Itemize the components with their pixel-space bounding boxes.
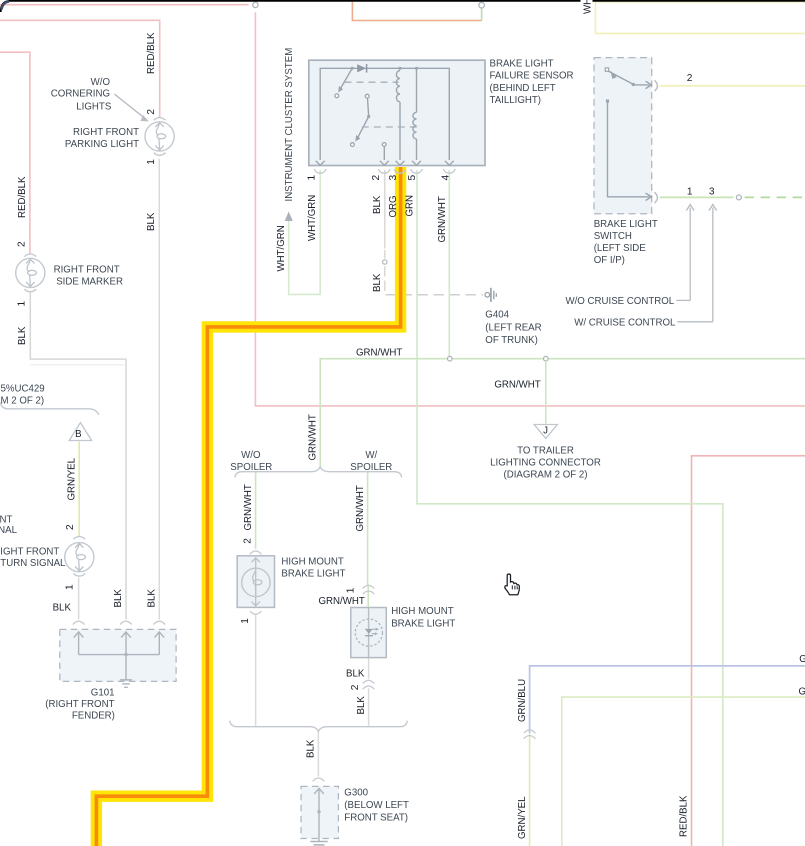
label B in triangle (75, 429, 81, 440)
label TO TRAILER LIGHTING CONNECTOR (490, 445, 601, 480)
pin 1 left high mount (240, 618, 251, 624)
svg-text:GRN/WHT: GRN/WHT (355, 485, 366, 531)
pin 5 cluster (407, 175, 418, 181)
svg-text:IGHT FRONT: IGHT FRONT (0, 546, 59, 557)
label J in triangle (543, 425, 548, 436)
wire BLK below left high mount brake light (255, 614, 257, 726)
svg-text:BLK: BLK (113, 589, 124, 608)
svg-text:NAL: NAL (0, 525, 18, 536)
svg-text:GRN/WHT: GRN/WHT (319, 596, 365, 607)
connector triangle B (69, 423, 91, 441)
pin 1 brake switch (687, 187, 693, 198)
label RIGHT FRONT TURN SIGNAL (edge-cut) (0, 546, 66, 569)
svg-text:GRN/YEL: GRN/YEL (517, 796, 528, 839)
svg-text:TAILLIGHT): TAILLIGHT) (490, 95, 542, 106)
label GRN/WHT (w/ spoiler, vertical) (355, 485, 366, 531)
svg-text:GRN/BLU: GRN/BLU (517, 679, 528, 722)
svg-text:SPOILER: SPOILER (350, 462, 392, 473)
svg-text:FAILURE SENSOR: FAILURE SENSOR (490, 71, 574, 82)
svg-text:W/O: W/O (91, 77, 111, 88)
cluster pin exit arrows (316, 161, 454, 165)
wire GRN/WHT w/ spoiler branch (367, 472, 370, 608)
node: junction circle GRN/WHT at pin4 (448, 356, 453, 361)
connector dome above G300 (313, 778, 325, 781)
brace joining BLK wires above G300 (230, 721, 407, 732)
pin 4 cluster (440, 175, 451, 181)
svg-text:GRN/WHT: GRN/WHT (307, 414, 318, 460)
svg-text:2: 2 (687, 73, 693, 84)
svg-text:2: 2 (350, 684, 361, 690)
svg-text:3: 3 (388, 175, 399, 181)
svg-text:WHT: WHT (583, 0, 594, 14)
svg-text:M 2 OF 2): M 2 OF 2) (1, 395, 45, 406)
svg-text:2: 2 (65, 524, 76, 530)
svg-text:NT: NT (0, 514, 12, 525)
label BLK (pin2 upper, vertical) (372, 195, 383, 214)
svg-text:OF I/P): OF I/P) (594, 255, 625, 266)
wire GRN cluster pin5 long run to bottom right (417, 170, 723, 846)
label HIGH MOUNT BRAKE LIGHT (left) (281, 557, 345, 580)
svg-text:GRN/WHT: GRN/WHT (356, 348, 402, 359)
cluster internal: diode on top line (357, 64, 366, 73)
svg-text:BLK: BLK (346, 669, 365, 680)
connector domes above G101 (73, 621, 165, 624)
svg-text:3: 3 (709, 187, 715, 198)
node: connector circle on brake switch GRN wire (736, 195, 741, 200)
wire GRN/WHT cluster pin4 (448, 170, 450, 358)
pin 2 brake switch (687, 73, 693, 84)
label G edge-cut right 1 (799, 654, 805, 665)
arrow pointer from W/O CORNERING LIGHTS note (115, 94, 149, 121)
svg-text:SIDE MARKER: SIDE MARKER (56, 277, 123, 288)
connector domes GRN/BLU inline pair (524, 730, 536, 739)
svg-text:W/O CRUISE CONTROL: W/O CRUISE CONTROL (565, 296, 674, 307)
ground G300 (dashed box) (301, 786, 338, 845)
svg-text:ORG: ORG (388, 195, 399, 217)
ground G404 symbol (485, 288, 496, 302)
svg-text:SWITCH: SWITCH (594, 231, 632, 242)
label BLK (pin2 lower, vertical) (372, 273, 383, 292)
label ORG (pin3, vertical) (388, 195, 399, 217)
svg-text:BLK: BLK (372, 273, 383, 292)
svg-text:HIGH MOUNT: HIGH MOUNT (391, 606, 454, 617)
instrument cluster box (309, 60, 485, 165)
page border top with rounded corner (1, 1, 805, 12)
cluster internal: dashed link upper (345, 81, 399, 83)
svg-text:1: 1 (64, 584, 75, 590)
ground G101 (dashed box) (60, 629, 176, 687)
pin 1 side marker (17, 301, 28, 307)
lamp RIGHT FRONT PARKING LIGHT (145, 118, 174, 156)
label BLK at right high mount (horizontal) (346, 669, 365, 680)
svg-text:SPOILER: SPOILER (230, 462, 272, 473)
label G300 (BELOW LEFT FRONT SEAT) (344, 787, 409, 823)
label NT / NAL edge-cut (0, 514, 18, 536)
svg-text:2: 2 (146, 109, 157, 115)
label G404 (LEFT REAR OF TRUNK) (485, 310, 541, 346)
connector triangle J (to trailer) (534, 425, 557, 439)
label W/O SPOILER (230, 450, 272, 473)
svg-text:BRAKE LIGHT: BRAKE LIGHT (391, 619, 455, 630)
label RED/BLK (side marker feed, vertical) (17, 176, 28, 218)
svg-text:OF TRUNK): OF TRUNK) (485, 335, 538, 346)
pin 2 left high mount (242, 538, 253, 544)
wire brake light switch pin1/3 (GRN solid then dashed) (660, 196, 805, 198)
node: connector circle on RED/BLK top feed (253, 2, 258, 7)
label RIGHT FRONT PARKING LIGHT (65, 127, 139, 150)
pin 1 right high mount (346, 587, 357, 593)
label GRN/BLU (vertical) (517, 679, 528, 722)
pin 1 turn signal (64, 584, 75, 590)
svg-text:1: 1 (346, 587, 357, 593)
svg-text:G101: G101 (91, 688, 115, 699)
component HIGH MOUNT BRAKE LIGHT (w/o spoiler) (237, 556, 274, 614)
svg-text:1: 1 (306, 175, 317, 181)
label BLK at turn signal (horizontal) (53, 602, 72, 613)
wire RED/BLK bottom right vertical (692, 456, 805, 846)
wire GRN/WHT bus with spoiler drop (320, 359, 805, 468)
label GRN/YEL (turn signal, vertical) (66, 457, 77, 500)
label WHT/GRN (pin1, vertical) (307, 195, 318, 241)
label GRN/WHT bus 2 (494, 380, 540, 391)
svg-text:GRN/BLU: GRN/BLU (799, 654, 805, 665)
label BLK (below right high mount, vertical) (356, 696, 367, 715)
cluster internal: coil 2 (413, 67, 418, 160)
label RIGHT FRONT SIDE MARKER (54, 265, 123, 288)
label BLK (G101 mid, vertical) (113, 589, 124, 608)
wire RED/BLK to right front parking light (0, 20, 160, 117)
label BLK (below parking light, vertical) (146, 212, 157, 231)
wire RED/BLK vertical trunk to long horizontal (255, 12, 805, 406)
pin 2 turn signal (65, 524, 76, 530)
label WHT/GRN (up arrow, vertical) (276, 225, 287, 271)
label W/ SPOILER (350, 450, 392, 473)
svg-text:5%UC429: 5%UC429 (1, 384, 45, 395)
brace UC429 reference (1, 403, 99, 415)
label BLK (G101 right, vertical) (146, 589, 157, 608)
wire brake light switch pin2 (pale yellow) (660, 85, 805, 87)
svg-text:BLK: BLK (146, 589, 157, 608)
node: junction circle GRN/WHT at trailer drop (544, 356, 549, 361)
cluster internal: switch 2 (351, 94, 371, 146)
svg-text:GRN/YEL: GRN/YEL (66, 457, 77, 500)
svg-text:GRN/WHT: GRN/WHT (437, 196, 448, 242)
component BRAKE LIGHT SWITCH (dashed box) (594, 58, 657, 214)
svg-text:RIGHT FRONT: RIGHT FRONT (73, 127, 139, 138)
wire BLK below turn signal (78, 578, 80, 620)
wire BLK below parking light (158, 159, 160, 620)
label GRN/WHT bus 1 (356, 348, 402, 359)
component HIGH MOUNT BRAKE LIGHT (w/ spoiler, LED) (351, 608, 387, 658)
mouse cursor (505, 574, 519, 595)
wire GRN/WHT drop to trailer connector J (545, 361, 547, 424)
svg-text:RIGHT FRONT: RIGHT FRONT (54, 265, 120, 276)
svg-text:(BELOW LEFT: (BELOW LEFT (344, 800, 409, 811)
svg-text:FRONT SEAT): FRONT SEAT) (344, 813, 408, 824)
label BRAKE LIGHT FAILURE SENSOR (490, 59, 574, 107)
cluster internal: pin3 lead with circle (382, 143, 386, 160)
label W/O CORNERING LIGHTS (51, 77, 112, 112)
label G edge-cut right 2 (799, 687, 805, 698)
svg-text:2: 2 (242, 538, 253, 544)
svg-text:TURN SIGNAL: TURN SIGNAL (0, 558, 66, 569)
svg-text:BLK: BLK (146, 212, 157, 231)
label GRN/WHT (w/o spoiler, vertical) (243, 484, 254, 530)
wire WHT/GRN cluster pin1 with up-arrow branch (285, 170, 321, 294)
label GRN (pin5, vertical) (404, 195, 415, 217)
label BLK (above G300, vertical) (306, 739, 317, 758)
connector domes above right high mount (363, 585, 375, 594)
label HIGH MOUNT BRAKE LIGHT (right) (391, 606, 455, 630)
wire highlighted ORG circuit (yellow highlight band) (96, 167, 400, 846)
label W/ CRUISE CONTROL (574, 318, 676, 329)
pin 1 parking light (146, 159, 157, 165)
label GRN/WHT at right high mount pin (319, 596, 365, 607)
svg-text:W/O: W/O (241, 450, 261, 461)
svg-text:BRAKE LIGHT: BRAKE LIGHT (281, 569, 345, 580)
svg-text:W/ CRUISE CONTROL: W/ CRUISE CONTROL (574, 318, 676, 329)
svg-text:GRN/WHT: GRN/WHT (243, 484, 254, 530)
wire BLK below side marker (routes right then down to G101) (30, 293, 126, 620)
wire ORG top (from top edge to connector circle) (352, 2, 481, 21)
label 5%UC429 (M 2 OF 2) edge-cut reference (1, 384, 45, 407)
lamp RIGHT FRONT TURN SIGNAL (65, 537, 94, 577)
svg-text:BRAKE LIGHT: BRAKE LIGHT (490, 59, 554, 70)
svg-text:2: 2 (17, 241, 28, 247)
label INSTRUMENT CLUSTER SYSTEM (vertical) (284, 48, 295, 202)
svg-text:INSTRUMENT CLUSTER SYSTEM: INSTRUMENT CLUSTER SYSTEM (284, 48, 295, 202)
svg-text:HIGH MOUNT: HIGH MOUNT (281, 557, 344, 568)
wire BLK center to G300 (317, 731, 319, 777)
arrows w/o & w/ cruise control (676, 205, 716, 322)
svg-text:(RIGHT FRONT: (RIGHT FRONT (45, 699, 114, 710)
svg-text:FENDER): FENDER) (72, 711, 115, 722)
label BRAKE LIGHT SWITCH (594, 219, 658, 266)
wire GRN/YEL to right front turn signal (78, 441, 80, 536)
svg-text:GRN/WHT: GRN/WHT (494, 380, 540, 391)
svg-text:1: 1 (146, 159, 157, 165)
label GRN/WHT (bus drop, vertical) (307, 414, 318, 460)
wire BLK below right high mount brake light (368, 658, 370, 726)
svg-text:WHT/GRN: WHT/GRN (307, 195, 318, 241)
wire RED/BLK to right front side marker (0, 52, 30, 253)
svg-text:5: 5 (407, 175, 418, 181)
label G101 (RIGHT FRONT FENDER) (45, 688, 115, 722)
pin 2 cluster (371, 175, 382, 181)
wire BLK cluster pin2 to G404 (partly dashed) (385, 170, 483, 295)
wire GRN/BLU bottom right (530, 666, 805, 733)
svg-text:(LEFT SIDE: (LEFT SIDE (594, 243, 647, 254)
pin 2 parking light (146, 109, 157, 115)
svg-text:BLK: BLK (306, 739, 317, 758)
svg-text:GRN/YEL: GRN/YEL (799, 687, 805, 698)
pin 2 side marker (17, 241, 28, 247)
lamp RIGHT FRONT SIDE MARKER (16, 254, 45, 292)
svg-text:W/: W/ (365, 450, 377, 461)
svg-text:BLK: BLK (53, 602, 72, 613)
label GRN/WHT (pin4, vertical) (437, 196, 448, 242)
wire RED/BLK top feed (horizontal along top) (0, 5, 249, 9)
node: splice circle on BLK pin2 wire (383, 260, 387, 264)
label RED/BLK (parking feed, vertical) (146, 32, 157, 74)
connector domes below right high mount (363, 680, 375, 689)
svg-text:BLK: BLK (372, 195, 383, 214)
svg-text:G300: G300 (344, 787, 368, 798)
svg-text:(DIAGRAM 2 OF 2): (DIAGRAM 2 OF 2) (504, 470, 588, 481)
label GRN/YEL (below connector, vertical) (517, 796, 528, 839)
pin 2 right high mount (350, 684, 361, 690)
brace spoiler options split (235, 467, 402, 477)
svg-text:G404: G404 (485, 310, 509, 321)
pin 3 cluster (388, 175, 399, 181)
pin 3 brake switch (709, 187, 715, 198)
svg-text:TO TRAILER: TO TRAILER (517, 445, 574, 456)
svg-text:BLK: BLK (17, 326, 28, 345)
svg-text:BRAKE LIGHT: BRAKE LIGHT (594, 219, 658, 230)
svg-text:WHT/GRN: WHT/GRN (276, 225, 287, 271)
svg-text:2: 2 (371, 175, 382, 181)
svg-text:1: 1 (240, 618, 251, 624)
wire GRN/WHT w/o spoiler branch (255, 472, 257, 549)
node: connector circle on ORG top wire (479, 2, 485, 8)
svg-text:PARKING LIGHT: PARKING LIGHT (65, 139, 139, 150)
cluster internal: switch 1 (335, 67, 354, 98)
svg-text:RED/BLK: RED/BLK (679, 795, 690, 837)
svg-text:BLK: BLK (356, 696, 367, 715)
svg-text:LIGHTS: LIGHTS (76, 101, 112, 112)
svg-text:GRN: GRN (404, 195, 415, 217)
svg-text:B: B (75, 429, 81, 440)
cluster internal: coil 1 (396, 67, 401, 160)
cluster pin connector cups (314, 169, 455, 173)
svg-text:(LEFT REAR: (LEFT REAR (485, 322, 541, 333)
wire highlighted ORG circuit (orange core) (96, 167, 400, 846)
svg-text:CORNERING: CORNERING (51, 88, 110, 99)
svg-text:4: 4 (440, 175, 451, 181)
wire WHT top right (pale yellow) (595, 2, 805, 34)
svg-text:RED/BLK: RED/BLK (17, 176, 28, 218)
wire GRN/YEL below GRN/BLU connector (529, 733, 531, 846)
svg-text:LIGHTING CONNECTOR: LIGHTING CONNECTOR (490, 458, 601, 469)
svg-text:1: 1 (17, 301, 28, 307)
wire GRN/YEL bottom right vertical (562, 697, 805, 846)
svg-text:J: J (543, 425, 548, 436)
svg-text:(BEHIND LEFT: (BEHIND LEFT (490, 83, 556, 94)
connector dome above left high mount brake light (250, 551, 262, 554)
pin 1 cluster (306, 175, 317, 181)
label BLK (below side marker, vertical) (17, 326, 28, 345)
svg-text:RED/BLK: RED/BLK (146, 32, 157, 74)
svg-text:1: 1 (687, 187, 693, 198)
label RED/BLK (bottom right, vertical) (679, 795, 690, 837)
label W/O CRUISE CONTROL (565, 296, 674, 307)
label WHT (top edge cut, vertical) (581, 0, 594, 15)
cluster internal: dashed link lower (362, 126, 422, 128)
